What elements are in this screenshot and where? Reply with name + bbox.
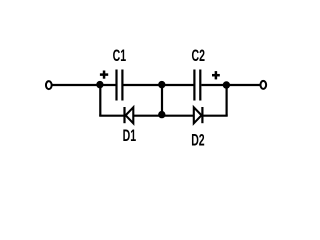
svg-text:C1: C1 xyxy=(113,45,127,64)
wire: D2 cathode to bottom-right corner xyxy=(202,115,227,117)
svg-text:D2: D2 xyxy=(191,130,205,149)
wire: C2 right plate to output terminal xyxy=(201,84,259,86)
wire: C1 right plate to C2 left plate xyxy=(124,84,195,86)
wire: node B down to bottom rail xyxy=(161,85,163,116)
svg-text:C2: C2 xyxy=(192,46,206,65)
wire: bottom-right riser up to node D xyxy=(226,85,228,116)
wire: node C to D2 anode xyxy=(162,115,194,117)
diode D1 (cathode bar left, triangle pointing left) xyxy=(125,107,134,123)
junction dot: node A (input / C1+ / D1 cathode) xyxy=(96,81,103,88)
junction dot: node B (C1- / C2- / top of D2 anode riser) xyxy=(158,81,165,88)
junction dot: node C (bottom middle, D1 anode / D2 anode) xyxy=(158,111,165,118)
svg-text:D1: D1 xyxy=(123,125,137,144)
capacitor C2 (polarized, + on right) xyxy=(194,70,200,101)
wire: bottom-left segment to D1 cathode xyxy=(99,115,124,117)
diode D2 (triangle pointing right, cathode bar right) xyxy=(194,107,203,123)
C1 polarity + mark xyxy=(100,71,108,79)
terminal OUT (right open circle) xyxy=(260,81,266,89)
junction dot: node D (C2+ / D2 cathode / output) xyxy=(223,81,230,88)
C2 polarity + mark xyxy=(212,71,220,79)
terminal IN (left open circle) xyxy=(46,81,52,89)
wire: input to C1 left plate xyxy=(53,84,117,86)
wire: D1 anode to node C xyxy=(133,115,162,117)
capacitor C1 (polarized, + on left) xyxy=(117,70,123,101)
wire: node A down to bottom rail xyxy=(99,85,101,116)
